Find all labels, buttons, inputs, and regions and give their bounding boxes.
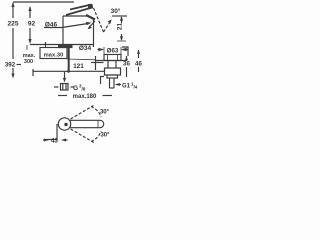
svg-text:225: 225 <box>7 21 18 28</box>
lever handle (solid, upper stroke) <box>70 5 92 10</box>
wire: extension line at body bottom level <box>30 44 63 46</box>
side view: hose hook <box>101 77 105 85</box>
hose end fitting symbol <box>61 84 69 91</box>
dimension max.180 (hose length) <box>58 95 67 97</box>
side view: mounting nut <box>105 68 121 75</box>
svg-text:Ø63: Ø63 <box>107 48 119 55</box>
dimension line 36 <box>126 56 128 58</box>
svg-text:max.30: max.30 <box>44 53 64 59</box>
lever handle (solid, lower stroke) <box>66 8 92 16</box>
dimension line 46 <box>138 50 140 58</box>
lever swing arc (dashed V) <box>94 8 104 32</box>
side view: threaded tail <box>109 78 111 88</box>
top view: swivel arc upper <box>91 107 101 118</box>
faucet body: beveled top-right corner (thick) <box>86 15 95 20</box>
svg-text:46: 46 <box>135 61 142 68</box>
svg-text:121: 121 <box>73 63 84 70</box>
top view: spout bar <box>70 120 104 127</box>
deck cross-section box with label max.30 <box>40 48 67 59</box>
svg-text:G: G <box>73 85 78 92</box>
svg-text:21: 21 <box>117 23 124 31</box>
svg-text:Ø34: Ø34 <box>79 45 92 52</box>
svg-text:300: 300 <box>24 59 33 65</box>
svg-text:G1: G1 <box>122 84 131 90</box>
svg-text:30°: 30° <box>111 7 121 15</box>
svg-text:/4: /4 <box>134 85 138 90</box>
svg-text:max.180: max.180 <box>73 94 97 100</box>
wire: deck line continuation between views <box>67 58 96 61</box>
dimension line 225 (left overall height) <box>12 3 14 18</box>
faucet body: left edge <box>62 16 64 45</box>
svg-text:43: 43 <box>51 138 58 145</box>
label G1 1/4 with leader <box>116 84 121 86</box>
flexible hose to fitting <box>64 72 66 79</box>
top view: faucet body circle <box>58 118 70 130</box>
svg-text:30°: 30° <box>100 133 110 139</box>
side view: pop-up rod <box>95 56 97 70</box>
wire: extension line top (225 reference to lever tip) <box>13 1 74 3</box>
svg-text:392: 392 <box>5 62 16 69</box>
lever handle tip cap <box>92 5 93 9</box>
dimension line 121 (horizontal, under deck) <box>33 70 104 72</box>
mounting shank below deck (front view, thick) <box>68 48 70 70</box>
leader arrow inside body (cartridge corner) <box>90 21 96 27</box>
svg-text:30°: 30° <box>100 110 110 116</box>
side view: shank neck <box>107 61 109 69</box>
wire: extension for 36/46 dims <box>122 47 128 56</box>
faucet body: right edge <box>93 20 95 48</box>
wire: leader tick above max.300 <box>26 45 28 50</box>
dimension 43 (top view offset) <box>43 139 45 141</box>
faucet body: bottom edge <box>63 44 93 46</box>
base plate (dark block at body foot) <box>58 45 73 49</box>
top view: cartridge dot <box>64 123 67 126</box>
top view: swivel dashed line upper <box>71 106 94 120</box>
top view: swivel arc lower <box>91 131 101 142</box>
wire: extension tick for lever-height dim (top) <box>112 15 127 17</box>
svg-text:92: 92 <box>28 21 36 28</box>
side view: escutcheon <box>104 55 121 61</box>
faucet body front view: top edge <box>63 15 88 17</box>
dimension line 92 (second left height) <box>29 7 31 18</box>
svg-text:/8: /8 <box>82 87 86 92</box>
svg-text:36: 36 <box>123 61 130 68</box>
side view: deck line <box>96 60 127 62</box>
top view: axis L-line <box>46 124 57 140</box>
dimension line 21 (lever rise height, right) <box>121 17 123 23</box>
top view: swivel dashed line lower <box>71 129 96 144</box>
pop-up rod (front view) <box>45 42 47 48</box>
side view: dimension diameter 63 <box>98 49 104 51</box>
